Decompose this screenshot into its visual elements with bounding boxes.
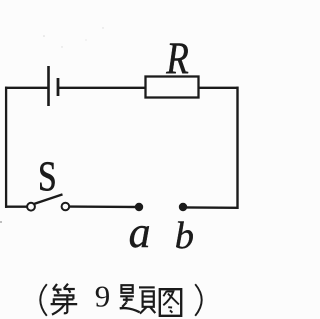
wire: top-left from left rail to battery [5,87,48,89]
label a [129,208,151,257]
wire: battery to resistor [59,87,145,89]
terminal a (solder dot) [135,203,143,211]
caption: character 第 [51,284,78,315]
battery B1 long plate (positive) [47,66,50,106]
switch S lever (open blade) [34,194,63,204]
wire: right rail (vertical) [236,87,238,209]
switch S left contact circle [27,203,35,211]
terminal b (solder dot) [179,203,187,211]
svg-text:a: a [129,208,151,257]
svg-text:b: b [175,215,194,257]
resistor R (box) [146,77,199,98]
wire: terminal a to switch [70,205,140,208]
caption: digit 9 [95,279,111,314]
svg-text:S: S [38,154,57,200]
caption: character 图 [160,289,181,316]
switch S right contact circle [62,203,70,211]
svg-text:R: R [165,33,188,83]
label b [175,215,194,257]
wire: bottom right from rail to terminal b [183,206,239,209]
wire: switch to left rail [5,205,27,207]
caption: character 题 [120,285,156,313]
caption: opening parenthesis [40,284,47,316]
faint scan specks (noise) [0,27,104,223]
caption: closing parenthesis [195,284,202,316]
svg-text:9: 9 [95,279,111,314]
label S [38,154,57,200]
wire: resistor to right rail [199,87,239,89]
wire: left rail (vertical) [5,87,7,208]
battery B1 short plate (negative) [57,78,60,96]
label R [165,33,188,83]
